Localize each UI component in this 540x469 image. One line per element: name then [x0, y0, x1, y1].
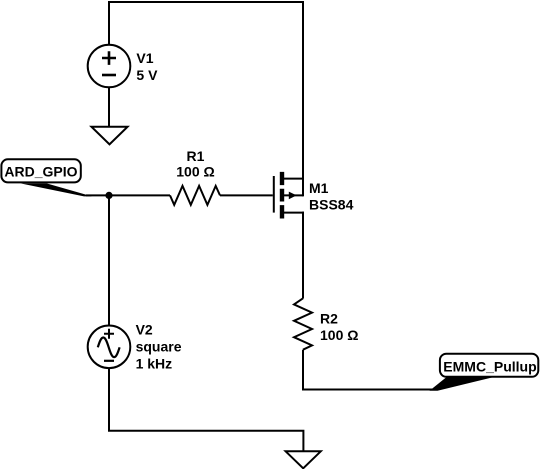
wire R1 to gate — [220, 194, 273, 196]
svg-text:100 Ω: 100 Ω — [176, 164, 214, 180]
wire top rail — [109, 1, 303, 3]
wire node to V2 — [108, 196, 110, 326]
resistor R1 — [170, 186, 220, 205]
svg-text:ARD_GPIO: ARD_GPIO — [4, 163, 77, 179]
svg-text:5 V: 5 V — [136, 67, 158, 83]
voltage source V1 — [88, 45, 131, 88]
wire drain to R2 — [302, 212, 304, 299]
label R1 100 Ω — [176, 148, 214, 180]
wire top-left drop to V1 — [108, 1, 110, 46]
svg-text:R1: R1 — [187, 148, 205, 164]
wire R2 to EMMC_Pullup — [303, 350, 433, 390]
EMMC_Pullup pointer — [430, 378, 493, 391]
label V2 square 1 kHz — [136, 322, 182, 372]
junction node — [105, 192, 112, 199]
wire right rail (source side) — [302, 1, 304, 196]
wire V1 to ground — [108, 87, 110, 126]
ground (bottom right) — [286, 451, 321, 468]
svg-text:M1: M1 — [309, 180, 329, 196]
resistor R2 — [294, 298, 312, 349]
svg-text:square: square — [136, 339, 182, 355]
svg-text:1 kHz: 1 kHz — [136, 355, 173, 371]
label R2 100 Ω — [320, 311, 358, 343]
ARD_GPIO pointer — [21, 184, 92, 197]
ground (under V1) — [92, 127, 128, 145]
svg-text:V1: V1 — [136, 50, 153, 66]
wire node to R1 — [86, 194, 170, 196]
svg-text:BSS84: BSS84 — [309, 196, 354, 212]
svg-text:EMMC_Pullup: EMMC_Pullup — [443, 358, 536, 374]
transistor M1 (PMOS) — [274, 172, 304, 219]
net flag ARD_GPIO — [1, 159, 80, 182]
label V1 5 V — [136, 50, 158, 83]
wire V2 to ground — [109, 368, 303, 452]
net flag EMMC_Pullup — [440, 354, 538, 377]
voltage source V2 — [88, 326, 131, 369]
svg-text:100 Ω: 100 Ω — [320, 327, 358, 343]
label M1 BSS84 — [309, 180, 354, 212]
svg-text:R2: R2 — [320, 311, 338, 327]
svg-text:V2: V2 — [136, 322, 153, 338]
